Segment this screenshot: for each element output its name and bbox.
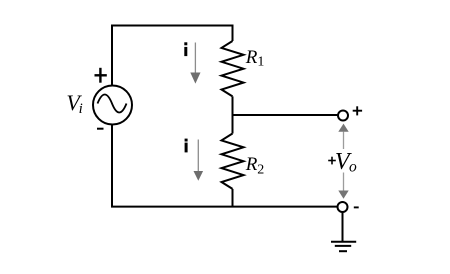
wire left lower (source bottom to bottom rail): [111, 125, 113, 207]
wire R1 to R2 (with tap junction): [232, 115, 234, 134]
Vo arrow up (toward + terminal): [338, 124, 348, 149]
ground: [331, 242, 356, 251]
label +Vo: [328, 149, 357, 176]
polarity - of source: [97, 128, 104, 130]
polarity + of output: [353, 106, 362, 115]
label i (upper): [184, 42, 187, 56]
output terminal - (node): [338, 202, 348, 212]
svg-text:1: 1: [257, 55, 264, 70]
current arrow i (upper): [190, 43, 200, 84]
svg-text:R: R: [245, 47, 258, 68]
wire bottom rail: [111, 206, 338, 208]
resistor R2: [222, 134, 244, 208]
svg-text:i: i: [79, 101, 83, 117]
svg-text:2: 2: [257, 163, 264, 178]
wire - terminal to ground: [342, 212, 344, 242]
voltage source Vi circle: [93, 86, 132, 125]
current arrow i (lower): [194, 140, 204, 181]
label Vi: [66, 90, 82, 117]
label i (lower): [185, 139, 188, 153]
voltage source sine waveform: [98, 95, 127, 113]
Vo arrow down (toward - terminal): [338, 173, 348, 199]
label R2: [245, 154, 265, 178]
output terminal + (node): [338, 111, 348, 121]
polarity - of output: [354, 206, 359, 208]
wire tap to + output terminal: [232, 114, 338, 116]
label R1: [245, 47, 265, 70]
svg-text:o: o: [349, 159, 357, 176]
wire top (source top to R1 top): [112, 26, 233, 86]
resistor R1: [222, 25, 244, 116]
svg-text:R: R: [245, 154, 258, 175]
polarity + of source: [95, 68, 107, 83]
